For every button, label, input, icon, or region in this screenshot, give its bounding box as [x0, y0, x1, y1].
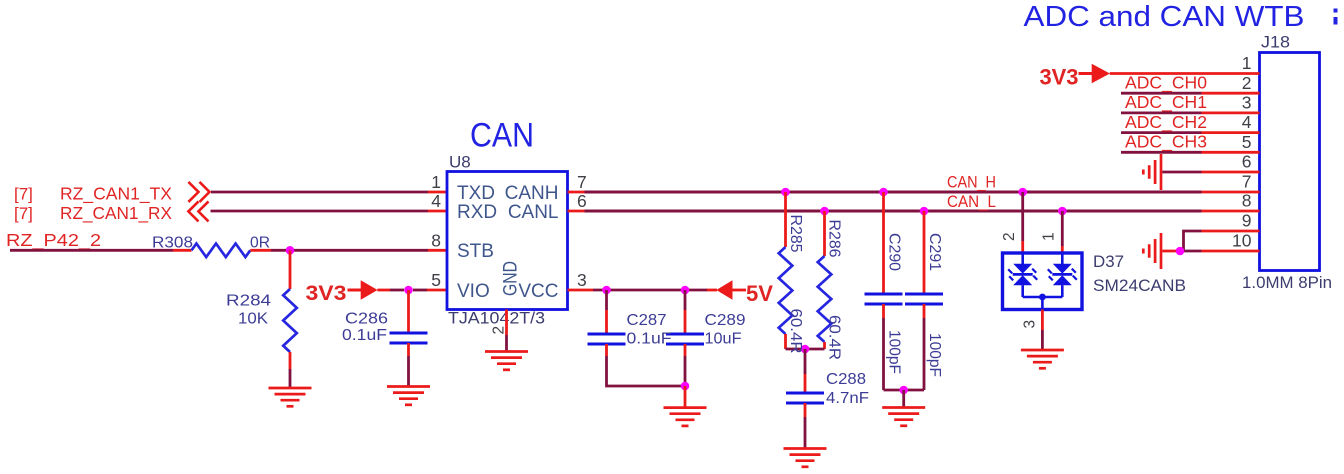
svg-text:ADC_CH0: ADC_CH0	[1125, 72, 1207, 93]
svg-text:VCC: VCC	[518, 281, 558, 302]
svg-text:TJA1042T/3: TJA1042T/3	[448, 309, 545, 328]
svg-text:RZ_CAN1_TX: RZ_CAN1_TX	[60, 184, 172, 205]
pin stub U8 pin8 STB	[428, 249, 447, 252]
lead C286 top	[407, 290, 410, 333]
svg-text:RZ_CAN1_RX: RZ_CAN1_RX	[60, 203, 172, 224]
pin stub J18 pin7 CAN_H	[1202, 191, 1260, 194]
wire C290 bottom	[882, 318, 885, 390]
wire C291 bottom	[923, 318, 926, 390]
lead R308 left	[173, 249, 192, 252]
junction 3V3/VIO/C286	[404, 286, 413, 295]
lead C289 top	[684, 310, 687, 334]
5V lead	[707, 289, 717, 292]
op IC U8 TJA1042 CAN transceiver box	[447, 172, 568, 310]
wire to C288	[804, 349, 807, 374]
lead R284 top	[289, 250, 292, 289]
junction pin9/pin10/ground	[1176, 247, 1185, 256]
pin stub U8 pin4 RXD	[428, 210, 447, 213]
lead C291 bottom	[923, 304, 926, 318]
wire C288 to ground	[804, 417, 807, 449]
pin stub U8 pin7 CANH	[568, 191, 585, 194]
sideways ground J18 pin10	[1143, 233, 1161, 269]
net ADC_CH1 wire	[1121, 112, 1202, 115]
net ADC_CH3 wire	[1121, 151, 1202, 154]
svg-text:J18: J18	[1261, 33, 1290, 52]
pin stub J18 pin6	[1202, 171, 1260, 174]
junction CAN_H/D37	[1018, 188, 1027, 197]
svg-text:4.7nF: 4.7nF	[826, 390, 869, 407]
svg-text:C286: C286	[345, 311, 388, 328]
wire RZ_CAN1_TX to TXD	[211, 191, 428, 194]
pin stub J18 pin2	[1202, 92, 1260, 95]
svg-text:3V3: 3V3	[306, 282, 347, 305]
wire R308 to STB	[271, 249, 428, 252]
ground under C287/C289	[664, 408, 707, 426]
wire R284 to ground	[289, 369, 292, 387]
wire C289 bottom	[684, 356, 687, 386]
lead C290 top	[882, 192, 885, 294]
junction CAN_L/C291	[920, 207, 929, 216]
pin stub U8 pin1 TXD	[428, 191, 447, 194]
lead C288 top	[804, 374, 807, 393]
svg-text:5: 5	[431, 270, 441, 290]
wire D37 to ground	[1041, 330, 1044, 350]
svg-text:7: 7	[577, 172, 587, 192]
svg-text:CAN: CAN	[470, 117, 534, 155]
pin stub U8 pin5 VIO	[427, 289, 447, 292]
pin stub D37 pin2	[1021, 241, 1024, 253]
capacitor C289	[666, 334, 704, 344]
junction CAN_H/R285	[781, 188, 790, 197]
wire 3V3 to J18 pin1	[1110, 72, 1260, 75]
pin stub J18 pin8 CAN_L	[1202, 210, 1260, 213]
svg-text:3V3: 3V3	[1040, 65, 1079, 90]
resistor R285	[779, 247, 793, 334]
svg-text:3: 3	[1022, 320, 1039, 329]
svg-text:6: 6	[1242, 152, 1252, 172]
wire pin2 to ground	[505, 335, 508, 352]
junction R285/R286/C288	[801, 345, 810, 354]
junction C287/C289 ground	[681, 382, 690, 391]
svg-text:U8: U8	[449, 153, 471, 172]
svg-text:D37: D37	[1093, 252, 1124, 271]
wire VCC to 5V	[593, 289, 707, 292]
svg-text:SM24CANB: SM24CANB	[1093, 276, 1186, 295]
svg-text:TXD: TXD	[457, 183, 495, 204]
wire junction to VIO	[413, 289, 427, 292]
capacitor C288	[786, 393, 824, 403]
junction VCC/C289	[681, 286, 690, 295]
wire R285/R286 join	[786, 348, 825, 351]
svg-text:8: 8	[1242, 191, 1252, 211]
lead C291 top	[923, 211, 926, 294]
pin stub J18 pin10	[1202, 250, 1260, 253]
lead R286 bottom	[823, 342, 826, 349]
wire C286 to ground	[407, 356, 410, 387]
svg-text:CAN_H: CAN_H	[947, 174, 996, 192]
capacitor C286	[390, 333, 428, 343]
wire to C287	[605, 290, 608, 310]
svg-text:ADC_CH1: ADC_CH1	[1125, 92, 1207, 113]
wire RZ_CAN1_RX to RXD	[211, 210, 429, 213]
junction CAN_H/C290	[879, 188, 888, 197]
capacitor C290	[865, 294, 903, 304]
lead C286 bottom	[407, 343, 410, 356]
lead C288 bottom	[804, 403, 807, 417]
lead R286 top	[823, 211, 826, 256]
svg-text:1: 1	[431, 172, 441, 192]
resistor R284	[283, 289, 297, 352]
pin stub U8 pin2 GND	[505, 310, 508, 336]
svg-text:RXD: RXD	[457, 202, 497, 223]
D37 inner join	[1023, 296, 1063, 299]
ground stem pin10	[1162, 250, 1180, 253]
diode D37 box	[1003, 253, 1083, 310]
svg-text:STB: STB	[457, 241, 494, 262]
svg-text:R285: R285	[787, 215, 804, 253]
pin stub J18 pin9	[1202, 230, 1260, 233]
resistor R308	[192, 244, 251, 258]
wire ground to pin6	[1162, 171, 1201, 174]
stem to ground	[902, 390, 905, 408]
3V3 lead	[348, 289, 362, 292]
svg-text:R284: R284	[226, 293, 271, 310]
svg-text:3: 3	[1242, 93, 1252, 113]
partial glyph at right edge	[1334, 9, 1338, 25]
svg-text:5: 5	[1242, 132, 1252, 152]
svg-text:0.1uF: 0.1uF	[627, 330, 672, 347]
wire CAN_L to D37 pin1	[1061, 211, 1064, 246]
wire CAN_H to D37 pin2	[1021, 192, 1024, 241]
svg-text:ADC_CH3: ADC_CH3	[1125, 132, 1207, 153]
ground under U8	[485, 352, 528, 370]
svg-text:4: 4	[431, 191, 441, 211]
diode D37 TVS element A	[1008, 253, 1037, 297]
svg-text:CAN_L: CAN_L	[947, 193, 996, 211]
svg-text:1: 1	[1041, 232, 1058, 241]
3V3 arrow top	[1092, 64, 1110, 84]
svg-text:C289: C289	[705, 312, 746, 329]
svg-text:GND: GND	[501, 261, 522, 296]
3V3 arrow lead	[377, 289, 390, 292]
resistor R286	[818, 256, 832, 342]
sheet-entry chevron RX (in)	[188, 201, 208, 221]
svg-text:2: 2	[1242, 73, 1252, 93]
5V arrow lead	[733, 289, 747, 292]
3V3 lead top	[1079, 72, 1093, 75]
D37 center tap	[1041, 297, 1044, 310]
net ADC_CH2 wire	[1121, 131, 1202, 134]
svg-text:RZ_P42_2: RZ_P42_2	[6, 230, 101, 251]
wire 3V3 to VIO junction	[390, 289, 404, 292]
stem to ground	[684, 386, 687, 408]
svg-text:[7]: [7]	[14, 185, 33, 204]
ground under C286	[387, 387, 430, 405]
pin stub J18 pin5	[1202, 151, 1260, 154]
connector J18 box	[1260, 53, 1320, 271]
wire C290/C291 join	[884, 389, 925, 392]
lead C287 bottom	[605, 344, 608, 356]
svg-text:C291: C291	[926, 233, 943, 271]
lead R308 right	[250, 249, 271, 252]
svg-text:5V: 5V	[746, 281, 773, 306]
diode D37 TVS element B	[1048, 253, 1077, 297]
wire J18 pin9 jog	[1184, 231, 1202, 251]
wire C287 bottom to join	[607, 356, 686, 386]
capacitor C291	[905, 294, 943, 304]
sideways ground J18 pin6	[1143, 154, 1161, 190]
net ADC_CH0 wire	[1121, 92, 1202, 95]
junction R308/R284/STB	[286, 246, 295, 255]
net CAN_L wire	[585, 210, 1202, 213]
junction CAN_L/R286	[820, 207, 829, 216]
sheet-entry chevron TX (out)	[188, 182, 209, 202]
svg-text:9: 9	[1242, 211, 1252, 231]
svg-text:C287: C287	[627, 312, 667, 329]
pin stub D37 pin1	[1061, 246, 1064, 253]
svg-text:2: 2	[491, 326, 508, 335]
pin stub D37 pin3	[1041, 310, 1044, 331]
svg-text:3: 3	[577, 270, 587, 290]
lead R285 bottom	[784, 334, 787, 349]
wire RZ_P42_2	[10, 249, 173, 252]
ground under D37	[1021, 350, 1064, 368]
svg-text:2: 2	[1001, 232, 1018, 241]
svg-text:C288: C288	[826, 371, 866, 388]
svg-text:R286: R286	[826, 220, 843, 258]
svg-text:10K: 10K	[238, 311, 268, 328]
net CAN_H wire	[585, 191, 1202, 194]
capacitor C287	[588, 334, 626, 344]
svg-text:6: 6	[577, 191, 587, 211]
junction VCC/C287	[602, 286, 611, 295]
svg-text:10: 10	[1232, 231, 1252, 251]
pin stub J18 pin3	[1202, 112, 1260, 115]
ground under C290/C291	[882, 408, 925, 426]
svg-text:[7]: [7]	[14, 204, 33, 223]
wire to C289	[684, 290, 687, 310]
svg-text:100pF: 100pF	[886, 330, 903, 374]
svg-text:0R: 0R	[250, 234, 270, 251]
svg-text:8: 8	[431, 230, 441, 250]
svg-text:1.0MM 8Pin: 1.0MM 8Pin	[1242, 273, 1332, 292]
svg-text:R308: R308	[152, 234, 193, 251]
svg-text:CANL: CANL	[508, 202, 559, 223]
pin stub U8 pin6 CANL	[568, 210, 585, 213]
pin stub U8 pin3 VCC	[568, 289, 594, 292]
svg-text:CANH: CANH	[505, 183, 559, 204]
5V arrow	[716, 280, 732, 300]
svg-text:60.4R: 60.4R	[826, 315, 843, 360]
junction CAN_L/D37	[1058, 207, 1067, 216]
3V3 arrow left	[361, 280, 378, 300]
svg-text:ADC_CH2: ADC_CH2	[1125, 112, 1207, 133]
svg-text:VIO: VIO	[457, 281, 490, 302]
lead R285 top	[784, 192, 787, 247]
pin stub J18 pin4	[1202, 131, 1260, 134]
junction C290/C291 ground	[899, 386, 908, 395]
svg-text:10uF: 10uF	[705, 330, 742, 347]
svg-text:7: 7	[1242, 172, 1252, 192]
D37 blue junction	[1039, 294, 1046, 301]
svg-text:C290: C290	[886, 233, 903, 271]
svg-text:60.4R: 60.4R	[787, 309, 804, 354]
lead C290 bottom	[882, 304, 885, 318]
ground under R284	[269, 388, 312, 406]
svg-text:1: 1	[1242, 53, 1252, 73]
lead C287 top	[605, 310, 608, 334]
lead R284 bottom	[289, 352, 292, 369]
svg-text:100pF: 100pF	[926, 333, 943, 377]
wire pin10 to junction	[1180, 250, 1202, 253]
svg-text:4: 4	[1242, 112, 1252, 132]
svg-text:0.1uF: 0.1uF	[342, 327, 387, 344]
ground under C288	[784, 449, 827, 467]
lead C289 bottom	[684, 344, 687, 356]
svg-text:ADC and CAN WTB: ADC and CAN WTB	[1024, 1, 1305, 33]
